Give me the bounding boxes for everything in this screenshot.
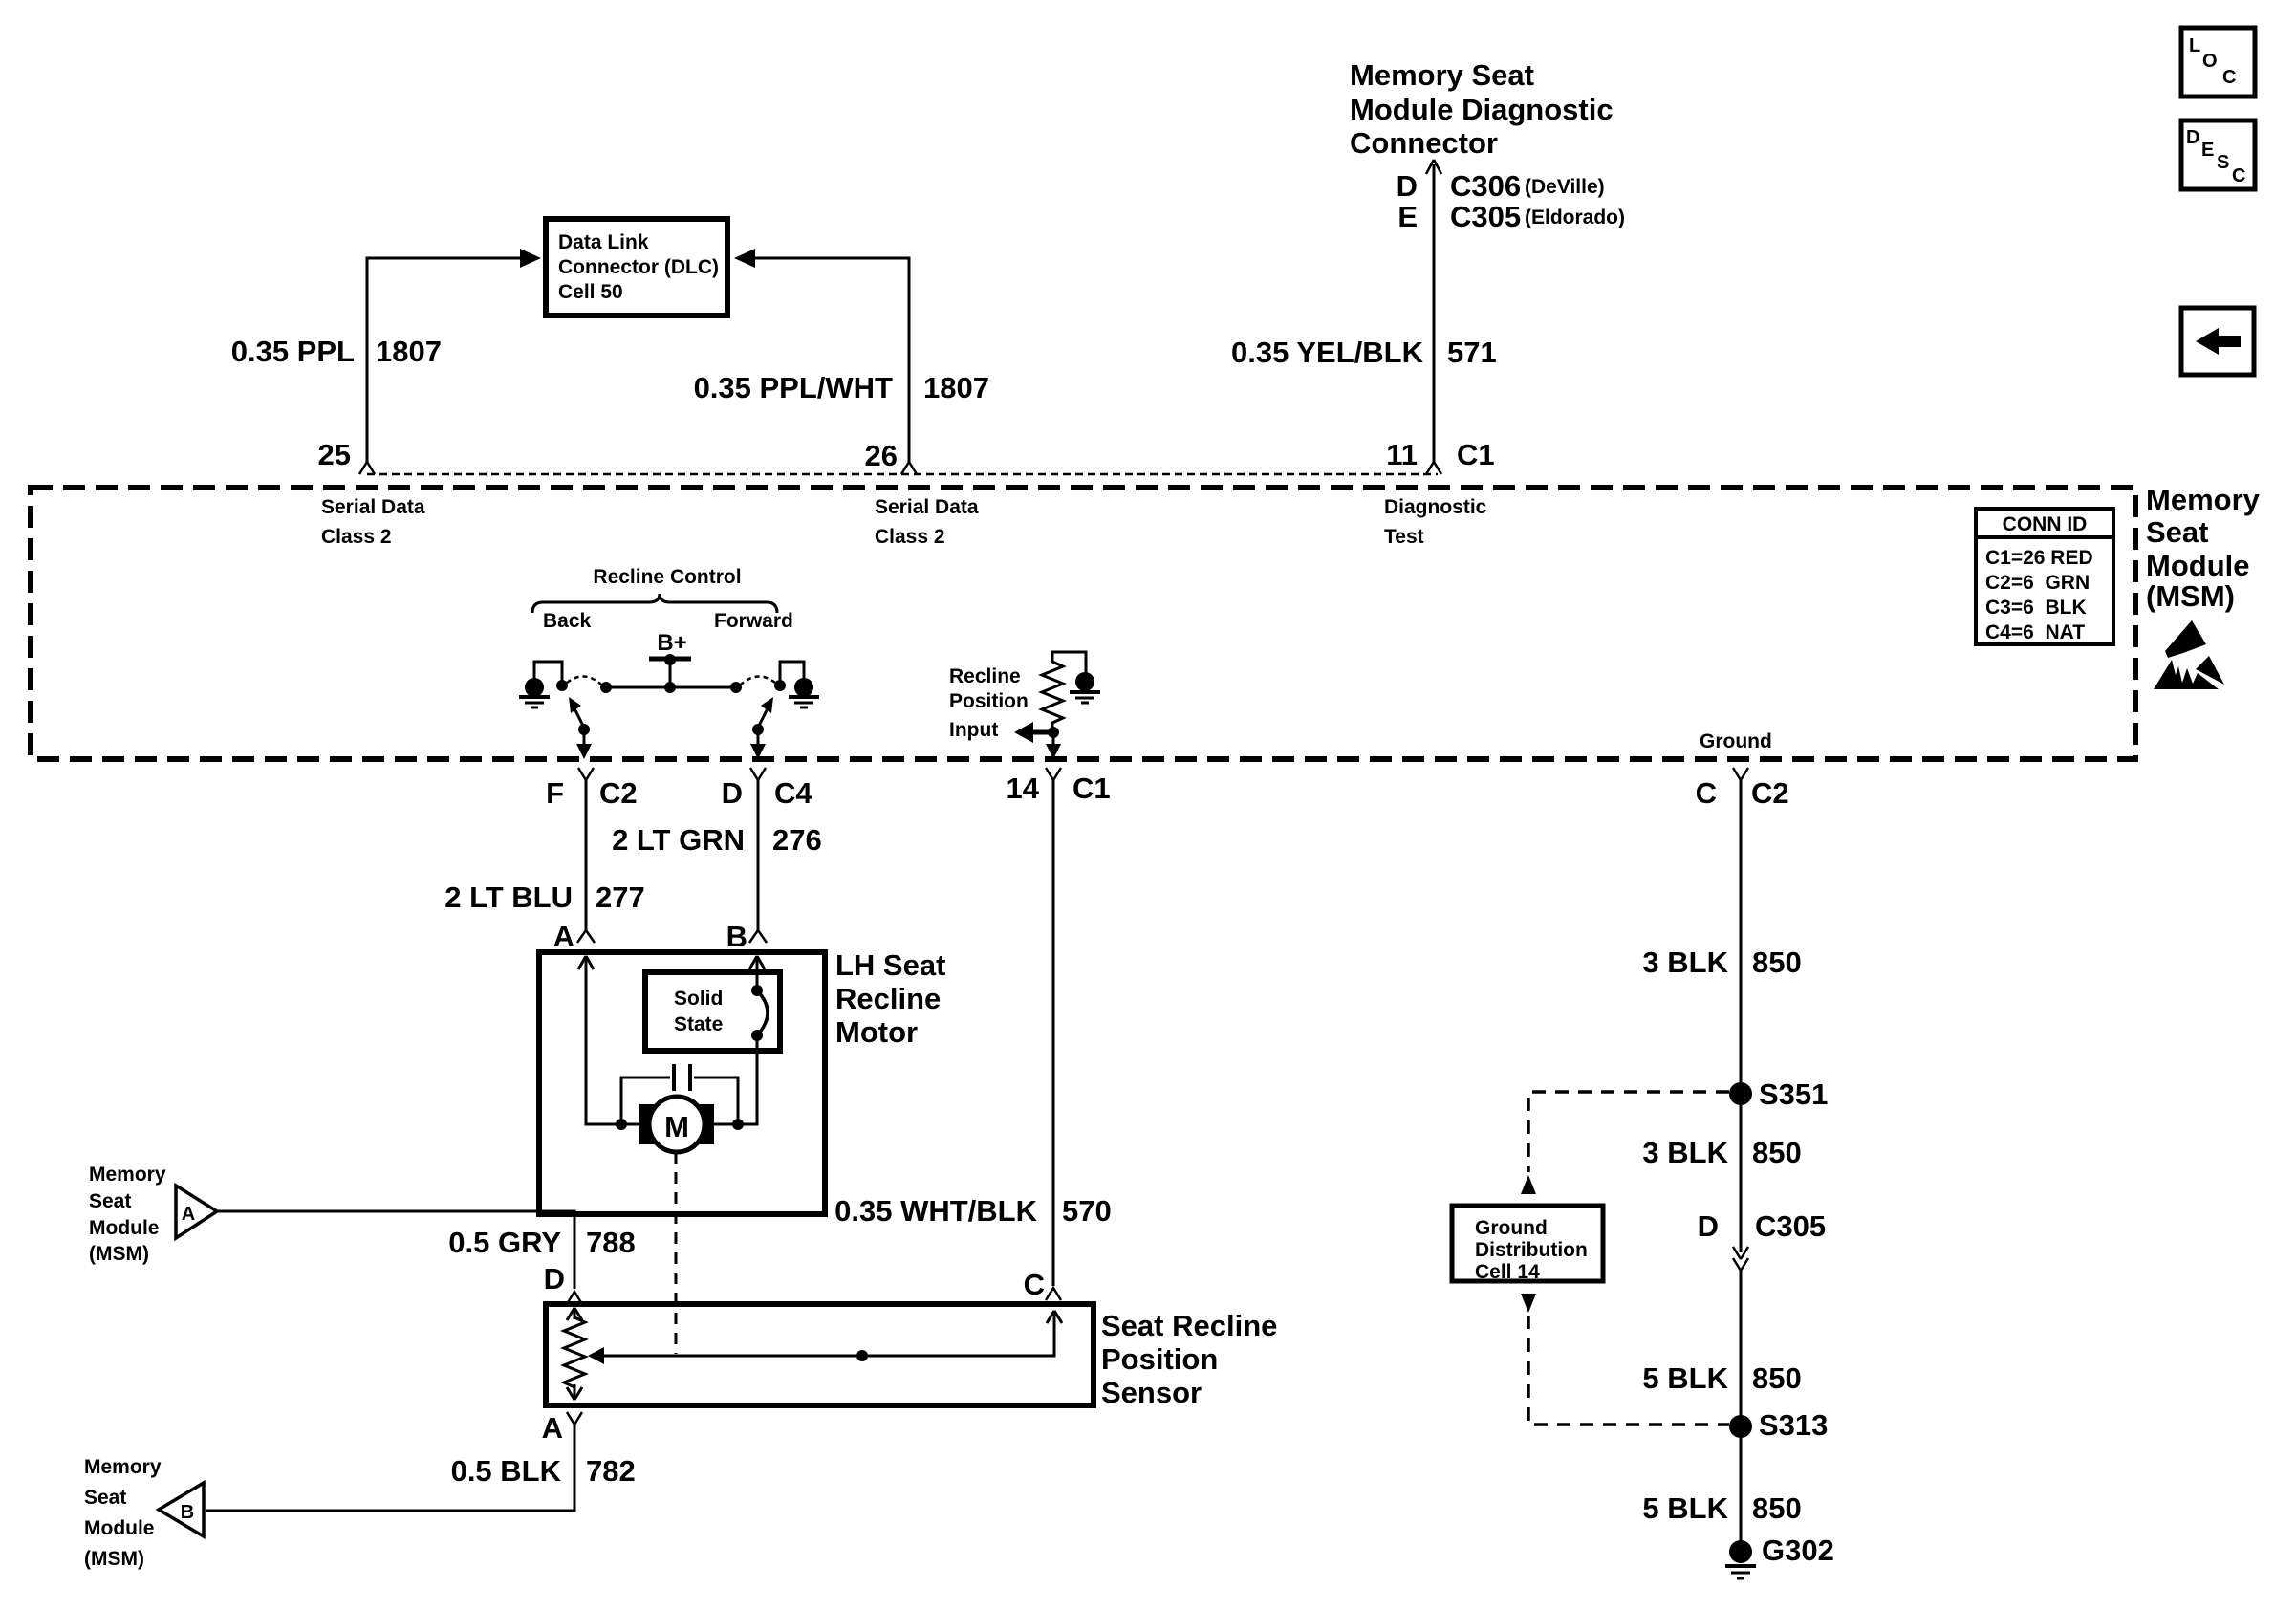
svg-text:G302: G302 (1762, 1534, 1834, 1567)
svg-text:Data Link: Data Link (558, 231, 649, 253)
dashed arc right switch (741, 676, 775, 685)
svg-text:S351: S351 (1759, 1077, 1828, 1111)
capacitor left wire (621, 1077, 670, 1124)
wiper pivot dot left (578, 724, 590, 735)
svg-text:C2: C2 (599, 776, 638, 810)
Solid State box (645, 972, 780, 1051)
svg-text:D: D (544, 1262, 565, 1295)
dashed reference: Ground Distribution to S313 (1528, 1316, 1729, 1425)
Ground Distribution Cell 14 box (1452, 1206, 1603, 1281)
svg-text:Class 2: Class 2 (875, 526, 945, 548)
arrowhead up to S351 branch (1521, 1175, 1536, 1194)
sensor wiper junction dot (856, 1350, 868, 1361)
right switch wiper arm (758, 703, 770, 728)
svg-text:C1: C1 (1072, 772, 1111, 805)
svg-text:Module: Module (89, 1217, 160, 1239)
svg-text:A: A (553, 920, 574, 953)
svg-text:S: S (2217, 152, 2229, 173)
right switch wire to D (757, 729, 760, 748)
wire 850 BLK: S313 to G302 (1740, 1426, 1743, 1544)
svg-text:B: B (726, 920, 747, 953)
svg-text:Test: Test (1384, 526, 1424, 548)
svg-text:Ground: Ground (1700, 730, 1772, 752)
svg-text:Seat: Seat (89, 1190, 131, 1212)
svg-text:5 BLK: 5 BLK (1642, 1491, 1728, 1525)
svg-text:D: D (1397, 169, 1418, 203)
svg-text:C306: C306 (1450, 169, 1521, 203)
arrowhead down from Ground Distribution (1521, 1294, 1536, 1313)
svg-text:0.35 PPL/WHT: 0.35 PPL/WHT (694, 371, 893, 404)
recline position input left arrowhead (1014, 722, 1033, 743)
wire 1807 PPL: terminal 25 up and right to DLC (367, 258, 521, 463)
svg-text:0.35 YEL/BLK: 0.35 YEL/BLK (1231, 336, 1424, 369)
svg-text:D: D (1698, 1209, 1719, 1243)
svg-text:Class 2: Class 2 (321, 526, 392, 548)
svg-text:(MSM): (MSM) (2146, 579, 2235, 613)
svg-text:(MSM): (MSM) (84, 1548, 144, 1570)
svg-text:Recline Control: Recline Control (593, 566, 741, 588)
svg-text:Position: Position (949, 690, 1029, 712)
svg-text:C3=6 BLK: C3=6 BLK (1985, 597, 2087, 619)
terminal fork A sensor (567, 1412, 582, 1425)
Recline Control brace (532, 594, 777, 613)
svg-text:D: D (2186, 127, 2199, 148)
svg-text:C2=6 GRN: C2=6 GRN (1985, 572, 2090, 594)
svg-text:850: 850 (1752, 1491, 1802, 1525)
wire arrowhead into DLC right (734, 249, 755, 268)
svg-text:Distribution: Distribution (1475, 1239, 1588, 1261)
svg-text:Recline: Recline (949, 665, 1021, 687)
svg-text:3 BLK: 3 BLK (1642, 946, 1728, 979)
wire 850 BLK: C305 to S313 (1740, 1271, 1743, 1426)
component chevron sensor D (567, 1292, 582, 1304)
svg-text:277: 277 (596, 881, 645, 914)
junction dot switch line center (664, 682, 676, 693)
svg-text:C305: C305 (1755, 1209, 1826, 1243)
wire 277 LT BLU: F down to motor A (585, 780, 588, 930)
contact dot right switch (774, 680, 786, 691)
component chevron motor A (577, 930, 595, 943)
motor circle (649, 1097, 704, 1152)
ground bracket right switch (780, 662, 804, 681)
Seat Recline Position Sensor box (546, 1304, 1094, 1405)
LH Seat Recline Motor box (539, 952, 825, 1214)
splice S351 (1729, 1082, 1752, 1105)
svg-text:Cell 50: Cell 50 (558, 281, 623, 303)
arrowhead up at diagnostic connector (1426, 160, 1441, 174)
svg-text:850: 850 (1752, 1361, 1802, 1395)
svg-text:0.35 WHT/BLK: 0.35 WHT/BLK (834, 1194, 1037, 1228)
terminal fork F (578, 768, 594, 780)
wire 276 LT GRN: D down to motor B (757, 780, 760, 930)
DLC box (546, 219, 727, 315)
back arrow box (2181, 308, 2254, 375)
svg-text:D: D (722, 776, 743, 810)
svg-text:Seat Recline: Seat Recline (1101, 1309, 1277, 1342)
wire 782 BLK: sensor A to triangle B (206, 1425, 574, 1511)
wire arrowhead into DLC left (520, 249, 541, 268)
svg-text:Seat: Seat (2146, 515, 2208, 549)
wire 850 BLK: C down to S351 (1740, 780, 1743, 1094)
svg-text:Memory: Memory (2146, 483, 2261, 516)
recline position input left arrow shaft (1030, 730, 1053, 735)
svg-text:O: O (2202, 51, 2218, 72)
svg-text:0.35 PPL: 0.35 PPL (231, 335, 355, 368)
Memory Seat Module dashed box (31, 488, 2135, 759)
connector symbol C305 (1733, 1247, 1748, 1271)
sensor wiper wire with up arrow at C (593, 1311, 1062, 1356)
svg-text:0.5 BLK: 0.5 BLK (451, 1454, 562, 1488)
B+ bar (649, 657, 691, 662)
solid state relay arc (757, 990, 768, 1035)
svg-text:M: M (664, 1110, 689, 1143)
left switch wire to F (583, 729, 586, 748)
ground ball recline position input (1075, 672, 1094, 691)
svg-text:Solid: Solid (674, 988, 723, 1010)
junction dot B+ (664, 654, 676, 665)
svg-text:570: 570 (1062, 1194, 1112, 1228)
svg-text:Position: Position (1101, 1342, 1218, 1376)
recline position input resistor zigzag (1042, 662, 1063, 728)
ESD warning symbol (2154, 620, 2224, 689)
wire 1807 PPL/WHT: terminal 26 up and left to DLC (755, 258, 909, 463)
motor wire B inside with up arrow (749, 956, 765, 990)
svg-text:C: C (1024, 1268, 1045, 1301)
dashed mechanical link motor to sensor (675, 1152, 678, 1354)
wire 571 YEL/BLK: terminal 11 up to diagnostic connector (1433, 164, 1436, 463)
terminal fork 14 (C1) (1046, 768, 1061, 780)
MSM triangle connector B (159, 1483, 204, 1536)
terminal fork D (C4) (750, 768, 766, 780)
svg-text:Connector (DLC): Connector (DLC) (558, 256, 719, 278)
wire 570 WHT/BLK: 14 down to sensor C (1052, 780, 1055, 1286)
svg-text:850: 850 (1752, 946, 1802, 979)
sensor potentiometer zigzag (564, 1317, 585, 1387)
sensor potentiometer bottom arrow (567, 1384, 582, 1400)
wire solid state to motor (714, 1035, 757, 1124)
svg-text:5 BLK: 5 BLK (1642, 1361, 1728, 1395)
svg-text:Ground: Ground (1475, 1217, 1548, 1239)
svg-text:2 LT BLU: 2 LT BLU (444, 881, 573, 914)
solid state dot bottom (751, 1030, 763, 1041)
svg-text:C1: C1 (1457, 438, 1495, 471)
capacitor right wire (694, 1077, 738, 1124)
B+ stem wire (669, 659, 672, 687)
sensor potentiometer top arrow (567, 1308, 582, 1320)
wire 788 GRY: triangle A to sensor D (217, 1211, 574, 1289)
svg-text:25: 25 (318, 438, 351, 471)
svg-text:Module: Module (2146, 549, 2250, 582)
svg-text:State: State (674, 1013, 723, 1035)
svg-text:Recline: Recline (835, 982, 941, 1015)
back arrow icon (2196, 328, 2241, 355)
svg-text:Diagnostic: Diagnostic (1384, 496, 1487, 518)
svg-text:Memory Seat: Memory Seat (1350, 58, 1534, 92)
ground lines recline position input (1070, 690, 1100, 694)
svg-text:C2: C2 (1751, 776, 1789, 810)
svg-text:LH Seat: LH Seat (835, 948, 945, 982)
CONN ID table box (1976, 509, 2113, 644)
terminal fork 25 (359, 462, 375, 474)
svg-text:Module: Module (84, 1517, 155, 1539)
svg-text:2 LT GRN: 2 LT GRN (612, 823, 745, 857)
ground ball left switch (525, 678, 544, 697)
ground lines left switch (519, 695, 550, 699)
svg-text:1807: 1807 (376, 335, 442, 368)
svg-text:Serial Data: Serial Data (321, 496, 425, 518)
svg-text:Memory: Memory (84, 1456, 162, 1478)
svg-text:26: 26 (865, 439, 898, 472)
svg-text:C: C (2232, 165, 2245, 186)
recline position input wire down to 14 (1052, 732, 1055, 748)
wiper pivot dot right (752, 724, 764, 735)
svg-text:Sensor: Sensor (1101, 1376, 1202, 1409)
sensor wiper arrowhead (588, 1347, 604, 1364)
ground G302 (1729, 1540, 1752, 1563)
svg-text:Module Diagnostic: Module Diagnostic (1350, 93, 1614, 126)
svg-text:Serial Data: Serial Data (875, 496, 979, 518)
svg-text:A: A (542, 1411, 563, 1445)
MSM triangle connector A (176, 1186, 217, 1238)
svg-text:571: 571 (1447, 336, 1497, 369)
terminal fork 26 (901, 462, 917, 474)
splice S313 (1729, 1415, 1752, 1438)
dashed reference: S351 to Ground Distribution (1528, 1092, 1729, 1172)
right switch wiper arrowhead (761, 697, 773, 713)
svg-text:Memory: Memory (89, 1164, 166, 1186)
svg-text:(MSM): (MSM) (89, 1243, 149, 1265)
svg-text:F: F (546, 776, 564, 810)
wire 850 BLK: S351 to C305 (1740, 1094, 1743, 1252)
svg-text:A: A (182, 1204, 195, 1225)
capacitor plates (674, 1064, 690, 1091)
component chevron motor B (749, 930, 767, 943)
svg-text:B+: B+ (657, 630, 686, 656)
svg-text:C305: C305 (1450, 200, 1521, 233)
switch common wire (606, 686, 736, 689)
svg-text:C: C (1696, 776, 1717, 810)
junction dot recline position input (1048, 727, 1059, 738)
svg-text:Seat: Seat (84, 1487, 126, 1509)
svg-text:S313: S313 (1759, 1408, 1828, 1442)
svg-text:Back: Back (543, 610, 592, 632)
left switch wiper arrowhead (569, 697, 581, 713)
svg-text:E: E (2201, 140, 2214, 161)
svg-text:E: E (1397, 200, 1418, 233)
svg-text:0.5 GRY: 0.5 GRY (448, 1226, 561, 1259)
motor wire A inside with up arrow (578, 956, 639, 1124)
svg-text:Forward: Forward (714, 610, 793, 632)
svg-text:CONN ID: CONN ID (2003, 513, 2088, 535)
svg-text:Input: Input (949, 719, 998, 741)
svg-text:(Eldorado): (Eldorado) (1525, 207, 1625, 228)
svg-text:Connector: Connector (1350, 126, 1498, 160)
ground bracket left switch (534, 662, 562, 681)
dashed arc left switch (567, 676, 601, 685)
junction dot switch line right (730, 682, 742, 693)
svg-text:C4: C4 (774, 776, 812, 810)
svg-text:(DeVille): (DeVille) (1525, 176, 1605, 198)
svg-text:14: 14 (1007, 772, 1040, 805)
svg-text:C1=26 RED: C1=26 RED (1985, 547, 2093, 569)
svg-text:C4=6 NAT: C4=6 NAT (1985, 621, 2085, 643)
LOC box (2181, 28, 2255, 97)
solid state dot top (751, 985, 763, 996)
junction dot motor left (616, 1119, 627, 1130)
svg-text:782: 782 (586, 1454, 636, 1488)
motor brush left (639, 1104, 655, 1144)
recline position input resistor top bracket (1052, 652, 1086, 673)
motor brush right (699, 1104, 714, 1144)
svg-text:11: 11 (1386, 438, 1418, 471)
svg-text:788: 788 (586, 1226, 636, 1259)
terminal fork C (C2) (1733, 768, 1748, 780)
svg-text:Cell 14: Cell 14 (1475, 1261, 1540, 1283)
svg-text:Motor: Motor (835, 1015, 918, 1049)
contact dot left switch (556, 680, 568, 691)
svg-text:1807: 1807 (923, 371, 989, 404)
left switch wiper arm (572, 703, 584, 728)
svg-text:276: 276 (772, 823, 822, 857)
svg-text:3 BLK: 3 BLK (1642, 1136, 1728, 1169)
thin dashed connector line through terminals 25 26 11 (367, 473, 1438, 476)
ground lines right switch (789, 695, 819, 699)
svg-text:C: C (2222, 67, 2236, 88)
junction dot motor right (732, 1119, 744, 1130)
svg-text:B: B (181, 1502, 194, 1523)
junction dot switch line left (600, 682, 612, 693)
ground ball right switch (794, 678, 813, 697)
svg-text:850: 850 (1752, 1136, 1802, 1169)
component chevron sensor C (1046, 1288, 1061, 1300)
svg-text:L: L (2189, 35, 2200, 56)
DESC box (2181, 120, 2255, 189)
terminal fork 11 (1426, 462, 1441, 474)
